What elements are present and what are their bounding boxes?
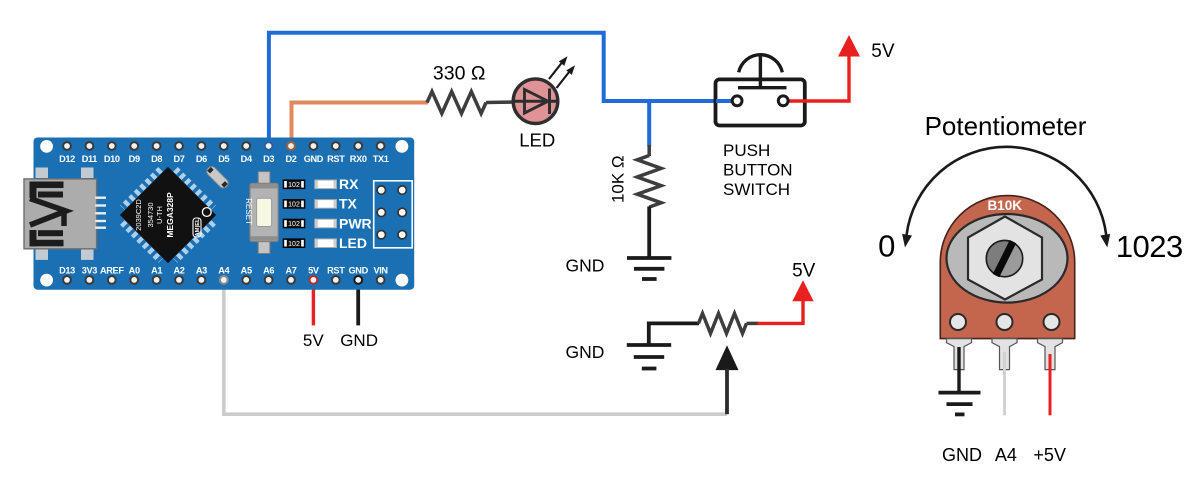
svg-text:330 Ω: 330 Ω bbox=[433, 62, 486, 84]
svg-text:A5: A5 bbox=[241, 266, 252, 276]
svg-text:D10: D10 bbox=[104, 154, 120, 164]
svg-text:SWITCH: SWITCH bbox=[723, 180, 790, 199]
ground symbol 3 bbox=[939, 393, 981, 415]
push button switch SW1 body bbox=[716, 79, 805, 125]
svg-text:GND: GND bbox=[942, 445, 982, 465]
indicator led RX bbox=[315, 180, 337, 189]
svg-text:A3: A3 bbox=[196, 266, 207, 276]
svg-text:D7: D7 bbox=[173, 154, 184, 164]
wire resistor to LED bbox=[486, 100, 515, 104]
svg-text:5V: 5V bbox=[303, 331, 324, 350]
svg-text:GND: GND bbox=[566, 255, 605, 275]
smd resistor 102 row 4 bbox=[283, 239, 305, 248]
svg-text:1023: 1023 bbox=[1116, 229, 1183, 264]
svg-text:GND: GND bbox=[304, 154, 324, 164]
resistor R2 10K bbox=[637, 156, 661, 208]
svg-text:VIN: VIN bbox=[373, 266, 388, 276]
5V power arrow at pot bbox=[792, 280, 813, 301]
indicator led PWR bbox=[315, 219, 337, 228]
top header pins bbox=[63, 142, 384, 150]
svg-text:D5: D5 bbox=[218, 154, 229, 164]
pot hex nut bbox=[968, 217, 1042, 300]
switch terminal right bbox=[778, 96, 788, 106]
pot shaft bbox=[985, 240, 1022, 278]
svg-text:PWR: PWR bbox=[339, 215, 372, 231]
indicator led TX bbox=[315, 200, 337, 209]
svg-text:A4: A4 bbox=[218, 266, 230, 276]
bottom pin labels bbox=[59, 266, 388, 276]
svg-text:AREF: AREF bbox=[100, 266, 124, 276]
ground symbol 1 bbox=[627, 258, 671, 279]
wire pot track to 5V (red) bbox=[747, 322, 759, 326]
indicator led LED bbox=[315, 239, 337, 248]
svg-text:TX1: TX1 bbox=[373, 154, 389, 164]
LED D1 bbox=[513, 79, 558, 124]
svg-text:A2: A2 bbox=[173, 266, 184, 276]
svg-text:RX: RX bbox=[339, 176, 359, 192]
svg-text:354730: 354730 bbox=[146, 202, 155, 227]
microcontroller chip ATMEGA328P U2 bbox=[115, 162, 221, 268]
top pin labels bbox=[59, 154, 389, 164]
wire pot A4 leg (gray) bbox=[1003, 352, 1006, 415]
svg-text:3V3: 3V3 bbox=[82, 266, 98, 276]
push button plunger bbox=[739, 55, 783, 73]
wire D2 to 330 ohm resistor (orange) bbox=[292, 103, 429, 147]
svg-text:AM|EL: AM|EL bbox=[195, 218, 201, 237]
pot legs bbox=[947, 339, 972, 370]
svg-text:102: 102 bbox=[288, 202, 300, 209]
smd resistor 102 row 1 bbox=[283, 180, 305, 189]
svg-text:B10K: B10K bbox=[987, 198, 1022, 213]
svg-text:D6: D6 bbox=[196, 154, 207, 164]
wire 5V pin stub (red) bbox=[312, 280, 315, 326]
wire A4 to potentiometer wiper (gray) bbox=[224, 280, 727, 414]
svg-text:A7: A7 bbox=[285, 266, 296, 276]
potentiometer VR1 body bbox=[940, 196, 1074, 339]
svg-text:BUTTON: BUTTON bbox=[723, 160, 793, 179]
svg-text:D2: D2 bbox=[285, 154, 296, 164]
svg-text:5V: 5V bbox=[792, 260, 816, 281]
smd resistor 102 row 3 bbox=[283, 219, 305, 228]
svg-text:PUSH: PUSH bbox=[723, 141, 770, 160]
svg-text:Potentiometer: Potentiometer bbox=[925, 111, 1087, 141]
svg-text:2039C2D: 2039C2D bbox=[134, 199, 143, 231]
svg-text:GND: GND bbox=[349, 266, 369, 276]
wire junction branch to 10K resistor (blue) bbox=[647, 101, 651, 147]
wire GND pin stub (black) bbox=[356, 280, 360, 326]
svg-text:D3: D3 bbox=[263, 154, 274, 164]
svg-text:LED: LED bbox=[519, 129, 555, 150]
wire D3 to switch (blue net) bbox=[269, 33, 732, 146]
svg-text:102: 102 bbox=[288, 182, 300, 189]
reset button SW2 bbox=[244, 172, 278, 254]
wire resistor to ground bbox=[647, 207, 651, 259]
chip markings bbox=[134, 192, 211, 238]
svg-text:D13: D13 bbox=[59, 266, 75, 276]
svg-text:RST: RST bbox=[327, 266, 345, 276]
wire pot 5V leg (red) bbox=[1049, 354, 1052, 415]
svg-text:A6: A6 bbox=[263, 266, 274, 276]
svg-text:10K Ω: 10K Ω bbox=[609, 155, 628, 203]
svg-text:RESET: RESET bbox=[244, 198, 253, 225]
Arduino Nano board U1 bbox=[34, 138, 415, 290]
ground symbol 2 bbox=[627, 345, 671, 369]
pot terminal circles bbox=[950, 314, 966, 330]
svg-text:A0: A0 bbox=[129, 266, 140, 276]
svg-text:GND: GND bbox=[566, 342, 605, 362]
svg-text:0: 0 bbox=[878, 229, 895, 264]
crystal oscillator Y1 bbox=[205, 165, 230, 190]
svg-text:LED: LED bbox=[339, 235, 367, 251]
wire stub into switch (blue) bbox=[716, 99, 732, 103]
svg-text:D9: D9 bbox=[129, 154, 140, 164]
svg-text:102: 102 bbox=[288, 241, 300, 248]
ICSP header J2 bbox=[374, 181, 413, 248]
svg-text:5V: 5V bbox=[308, 266, 320, 276]
mounting holes bbox=[40, 140, 53, 153]
wire switch to 5V (red) bbox=[789, 54, 850, 101]
svg-text:102: 102 bbox=[288, 221, 300, 228]
svg-text:D8: D8 bbox=[151, 154, 162, 164]
svg-text:RX0: RX0 bbox=[350, 154, 367, 164]
svg-text:A4: A4 bbox=[995, 445, 1017, 465]
svg-text:D11: D11 bbox=[82, 154, 98, 164]
svg-text:GND: GND bbox=[340, 331, 378, 350]
resistor VR1 potentiometer track bbox=[699, 313, 747, 333]
svg-text:D4: D4 bbox=[241, 154, 253, 164]
svg-text:RST: RST bbox=[327, 154, 345, 164]
wire pot GND leg (black) bbox=[957, 347, 960, 392]
resistor R1 330 ohm bbox=[427, 92, 486, 114]
svg-text:D12: D12 bbox=[59, 154, 75, 164]
svg-text:+5V: +5V bbox=[1033, 445, 1066, 465]
svg-text:TX: TX bbox=[339, 196, 358, 212]
svg-text:U-TH: U-TH bbox=[155, 206, 164, 224]
pot metal can (ellipse) bbox=[947, 214, 1068, 303]
svg-text:A1: A1 bbox=[151, 266, 162, 276]
5V power arrow at switch bbox=[838, 35, 860, 57]
svg-text:5V: 5V bbox=[871, 41, 895, 62]
rotation arc arrow bbox=[907, 147, 1107, 235]
LED light arrows bbox=[549, 54, 578, 88]
smd resistor 102 row 2 bbox=[283, 200, 305, 209]
potentiometer wiper arrow bbox=[716, 345, 739, 370]
bottom header pins bbox=[63, 276, 384, 284]
switch terminal left bbox=[732, 96, 742, 106]
wire ground to pot track bbox=[649, 323, 699, 345]
svg-text:MEGA328P: MEGA328P bbox=[165, 192, 175, 238]
USB connector J1 bbox=[24, 168, 106, 260]
